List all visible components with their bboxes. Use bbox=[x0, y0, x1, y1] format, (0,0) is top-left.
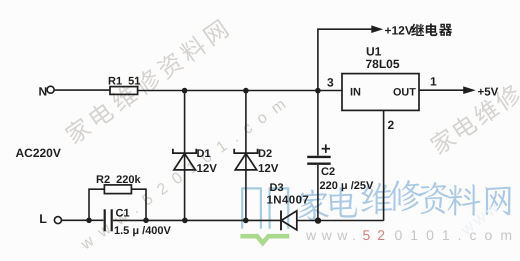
arrow +12V bbox=[371, 25, 383, 33]
svg-text:+5V: +5V bbox=[478, 87, 499, 99]
capacitor C2 bbox=[307, 144, 331, 163]
svg-text:1N4007: 1N4007 bbox=[267, 194, 310, 206]
svg-text:+12V: +12V bbox=[385, 23, 413, 37]
label 继电器 (relay) bbox=[411, 24, 452, 37]
svg-text:D2: D2 bbox=[258, 148, 272, 160]
op-amp U1 box (78L05 regulator) bbox=[342, 74, 419, 111]
svg-text:12V: 12V bbox=[197, 163, 218, 175]
svg-text:12V: 12V bbox=[258, 163, 279, 175]
svg-text:AC220V: AC220V bbox=[16, 146, 61, 160]
wire U1 pin1 to +5V arrow bbox=[419, 89, 464, 91]
zener D1 bbox=[173, 149, 196, 170]
resistor R2 bbox=[104, 185, 131, 194]
wire R2 loop bbox=[89, 189, 104, 220]
svg-text:www.: www. bbox=[305, 227, 361, 243]
terminal L bbox=[54, 217, 61, 224]
wire R1 to U1 pin3 (top rail) bbox=[138, 90, 342, 92]
svg-text:1: 1 bbox=[430, 74, 437, 88]
svg-text:78L05: 78L05 bbox=[366, 57, 400, 71]
resistor R1 bbox=[110, 87, 138, 95]
svg-text:3: 3 bbox=[327, 76, 334, 90]
svg-text:L: L bbox=[39, 212, 47, 226]
junction node top C2 bbox=[315, 88, 321, 94]
svg-text:52: 52 bbox=[363, 227, 393, 243]
svg-text:OUT: OUT bbox=[393, 87, 416, 99]
watermark: diagonal gray text 家电维修资料网 (top-left) bbox=[63, 19, 230, 146]
svg-text:R1 51: R1 51 bbox=[108, 76, 140, 88]
svg-text:2: 2 bbox=[388, 118, 395, 132]
wire N to R1 bbox=[54, 89, 110, 91]
capacitor C1 bbox=[105, 209, 112, 231]
svg-text:0101.com: 0101.com bbox=[395, 227, 520, 243]
svg-text:IN: IN bbox=[350, 87, 361, 99]
watermark: diagonal gray text 家电维修 (bottom-right) bbox=[428, 82, 520, 156]
junction node R2 right bbox=[143, 218, 149, 224]
svg-text:D1: D1 bbox=[197, 148, 211, 160]
wire D1 branch bbox=[184, 91, 186, 221]
wire +12V branch bbox=[318, 29, 372, 90]
svg-text:220 μ /25V: 220 μ /25V bbox=[320, 180, 374, 192]
junction node bottom D1 bbox=[182, 218, 188, 224]
junction node top D1 bbox=[182, 88, 188, 94]
wire U1 pin2 down bbox=[383, 110, 385, 220]
wire L to C1 bbox=[61, 219, 103, 221]
svg-text:C1: C1 bbox=[116, 208, 130, 220]
wire R2 right leg bbox=[131, 189, 146, 220]
wire C2 branch top bbox=[317, 91, 319, 156]
junction node bottom C2/D3 bbox=[315, 217, 321, 223]
svg-text:1.5 μ /400V: 1.5 μ /400V bbox=[114, 225, 172, 237]
watermark: site logo green book base bbox=[240, 236, 289, 243]
svg-text:C2: C2 bbox=[321, 166, 335, 178]
watermark: bottom url www.520101.com bbox=[305, 227, 520, 243]
wire C2 branch bottom bbox=[317, 165, 319, 221]
svg-text:R2 220k: R2 220k bbox=[96, 174, 142, 186]
watermark: site logo open book (blue pages) bbox=[242, 188, 288, 228]
svg-text:N: N bbox=[39, 85, 48, 99]
wire C1 to D3 (bottom rail) bbox=[113, 219, 281, 221]
diode D3 bbox=[281, 211, 297, 231]
junction node R2 left bbox=[86, 218, 92, 224]
wire D2 branch bbox=[245, 91, 247, 221]
svg-text:D3: D3 bbox=[270, 182, 284, 194]
watermark: big blue text 家电维修资料网 bbox=[298, 180, 510, 221]
arrow +5V bbox=[463, 86, 476, 94]
wire D3 to U1 pin2 (bottom rail right) bbox=[297, 220, 384, 222]
terminal N bbox=[47, 86, 54, 93]
junction node bottom D2 bbox=[243, 218, 249, 224]
zener D2 bbox=[234, 149, 257, 170]
junction node top D2 bbox=[243, 88, 249, 94]
